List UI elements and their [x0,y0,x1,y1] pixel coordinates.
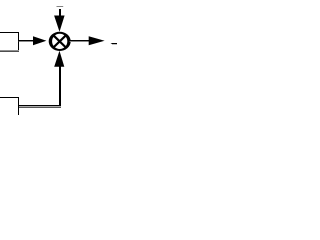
wire: short dash at right edge (continuing line, clipped) [111,43,117,45]
background [0,0,117,115]
arrowhead up into summing junction (feedback input) [54,51,64,67]
wire: vertical line from minus sign down [59,9,61,16]
block G1 (upper-left rectangle, clipped at left edge) [0,32,19,52]
arrowhead down into summing junction (top input) [54,15,65,31]
wire: feedback horizontal line from block H1 to vertical riser [19,105,61,108]
wire: feedback vertical line [59,66,61,108]
block H1 (lower-left rectangle, clipped at left and bottom edges) [0,97,19,115]
arrowhead into summing junction (left input) [33,36,46,45]
X cross inside summing junction [54,36,66,47]
output arrowhead (pointing right) [89,36,105,45]
minus sign (top input) [57,6,64,7]
wire: output line from summing junction to right arrowhead [70,40,90,42]
summing junction circle (annulus: wider stroke horizontally) [49,32,71,51]
wire: input line from block G1 to summing junction [19,40,35,42]
